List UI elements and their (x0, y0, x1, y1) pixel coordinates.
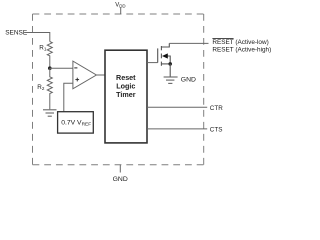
wire node A to comparator inverting input (50, 67, 73, 69)
dashed device boundary (33, 14, 204, 165)
channel segment body (160, 54, 162, 59)
Vref reference box 0.7V (58, 112, 94, 133)
overline for active-low RESET (212, 38, 233, 40)
dashed boundary bottom edge (33, 164, 204, 166)
wire gate drive (147, 62, 158, 64)
node A: divider tap junction (48, 66, 52, 70)
svg-text:R1: R1 (39, 45, 47, 52)
channel segment source (160, 62, 162, 66)
wire SENSE input to R1 (25, 33, 50, 42)
svg-text:RESET (Active-low): RESET (Active-low) (212, 39, 268, 46)
ground symbol below R2 (43, 110, 57, 116)
wire GND stub bottom (119, 165, 121, 173)
wire comparator output to reset logic (96, 74, 105, 76)
svg-text:R2: R2 (37, 84, 45, 91)
wire source to ground (169, 64, 171, 77)
body diode arrow (162, 53, 168, 58)
body connection (168, 56, 171, 64)
wire drain to RESET output (169, 42, 208, 44)
dashed boundary left edge (32, 14, 34, 165)
label non-inverting input plus sign (75, 78, 79, 82)
label inverting input minus sign (74, 67, 77, 69)
svg-text:Timer: Timer (116, 90, 136, 99)
resistor R1 (47, 42, 52, 67)
Reset Logic Timer block (105, 50, 147, 143)
resistor R2 (47, 68, 52, 109)
wire Vref to non-inverting input (64, 83, 73, 112)
gate bar (157, 48, 159, 62)
junction: source-body node (168, 62, 172, 66)
svg-text:RESET (Active-high): RESET (Active-high) (212, 46, 271, 53)
ground symbol at transistor source (164, 77, 178, 83)
wire CTS output (147, 128, 207, 130)
op-amp U1 comparator (73, 61, 97, 89)
dashed boundary right edge (203, 14, 205, 165)
svg-text:CTS: CTS (210, 127, 223, 134)
wire Vdd stub (120, 8, 122, 15)
svg-text:GND: GND (113, 176, 128, 183)
dashed boundary top edge (33, 13, 204, 15)
svg-text:SENSE: SENSE (5, 30, 28, 37)
source stub (161, 63, 170, 65)
svg-text:CTR: CTR (210, 105, 223, 112)
channel segment drain (160, 46, 162, 50)
drain stub (161, 43, 169, 47)
wire CTR output (147, 106, 207, 108)
transistor Q1 NMOS (158, 43, 171, 65)
svg-text:0.7V VREF: 0.7V VREF (61, 120, 91, 128)
svg-text:GND: GND (181, 77, 196, 84)
